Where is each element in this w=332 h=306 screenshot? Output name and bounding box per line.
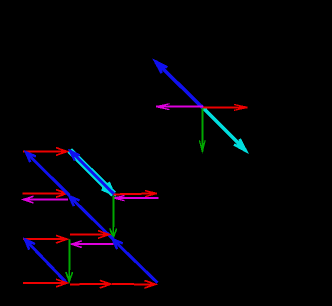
lattice: thick cyan diagonal arrow pointing down-right <box>70 151 117 198</box>
lattice: blue diagonal arrow B1 pointing up-left to node (113,239) <box>110 236 157 282</box>
vector arrow: blue velocity v pointing up-left (top-right cluster) <box>153 59 203 108</box>
lattice: blue diagonal arrow B2 pointing up-left to node (69,195) <box>67 193 114 239</box>
lattice row2 right: red arrow pointing right <box>114 190 158 196</box>
vector arrow: cyan vector pointing down-right (top-right cluster) <box>203 108 248 154</box>
lattice row3: red arrow pointing right into node (113,239) <box>70 231 109 239</box>
lattice row4: red arrow A pointing right <box>23 279 67 287</box>
lattice row1: red arrow pointing right <box>23 148 67 156</box>
lattice row3: magenta return arrow pointing left <box>72 241 114 248</box>
lattice: green vertical arrow from node (113,195) down to node (113,239) <box>110 196 117 238</box>
lattice row4: red arrow C pointing right <box>112 280 156 288</box>
lattice row3 left: red arrow pointing right <box>23 235 67 243</box>
vector arrow: red horizontal component pointing right (top-right cluster) <box>203 105 248 111</box>
vector arrow: green vertical component pointing down (top-right cluster) <box>199 108 205 151</box>
lattice: green vertical arrow from node (69,239) down to node (69,283) <box>66 240 73 282</box>
lattice row2 left: magenta return arrow pointing left <box>23 196 68 203</box>
lattice: blue diagonal arrow B4 pointing up-left to node (25,239) <box>22 237 66 283</box>
lattice row2 left: red arrow pointing right <box>23 190 68 198</box>
lattice: blue diagonal arrow B3 pointing up-left to node (25,151) <box>23 149 69 195</box>
lattice: blue diagonal arrow overlaid on cyan pointing up-left <box>68 148 115 194</box>
lattice row2 right: magenta return arrow pointing left <box>115 196 159 201</box>
vector arrow: magenta horizontal component pointing left (top-right cluster) <box>156 104 203 110</box>
lattice row4: red arrow B pointing right <box>70 280 111 288</box>
